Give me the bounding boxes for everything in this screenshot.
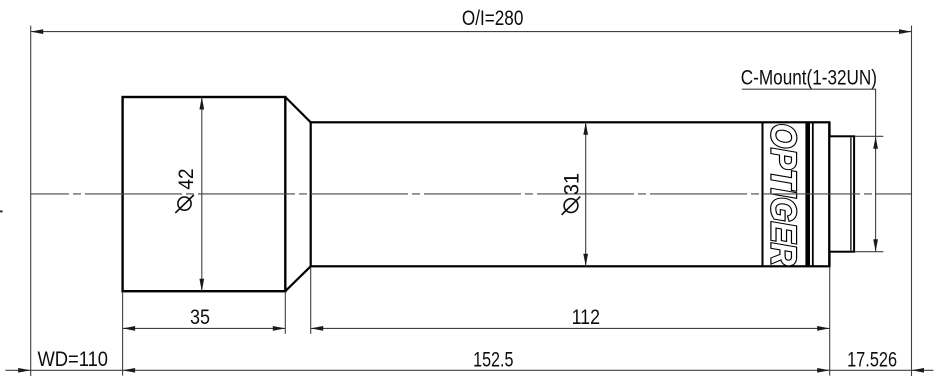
taper top: [285, 97, 310, 122]
dimension line O/I=280: [31, 31, 912, 33]
centerline axis: [31, 193, 912, 195]
ring groove line: [812, 122, 814, 266]
dimension line 35: [123, 327, 286, 329]
svg-text:42: 42: [175, 168, 198, 189]
svg-text:17.526: 17.526: [847, 348, 897, 371]
extension line front face: [122, 292, 124, 376]
extension line c-mount top: [855, 135, 883, 137]
ring left edge: [762, 122, 764, 266]
svg-text:C-Mount(1-32UN): C-Mount(1-32UN): [741, 67, 877, 90]
dimension line 112: [311, 327, 830, 329]
svg-text:112: 112: [572, 306, 600, 329]
main barrel phi31: [311, 122, 830, 266]
underline landing: [742, 88, 876, 90]
extension line left (object plane): [30, 26, 32, 376]
c-mount thread cylinder: [829, 136, 854, 251]
svg-text:35: 35: [190, 306, 210, 329]
dimension line phi31: [585, 122, 587, 266]
front cylinder phi42: [123, 97, 286, 291]
dimension line bottom row WD/152.5/17.526: [6, 369, 934, 371]
extension line barrel start: [310, 267, 312, 334]
label phi42: [175, 168, 198, 212]
label phi31: [561, 173, 584, 215]
extension line right (image plane): [911, 26, 913, 376]
svg-text:OPTIGER: OPTIGER: [763, 124, 802, 267]
dimension line phi42: [201, 97, 203, 291]
extension line c-mount bottom: [855, 251, 883, 253]
dimension leader C-Mount: [875, 89, 877, 252]
svg-text:WD=110: WD=110: [38, 348, 109, 371]
stray tick left edge: [0, 210, 3, 212]
ring black band: [805, 122, 810, 266]
flange face: [828, 122, 830, 266]
svg-text:152.5: 152.5: [473, 348, 513, 371]
svg-text:O/I=280: O/I=280: [462, 7, 524, 30]
taper bottom: [285, 266, 310, 291]
c-mount inner relief line: [850, 138, 852, 251]
svg-text:31: 31: [561, 173, 584, 195]
extension line front cylinder rear: [284, 292, 286, 334]
extension line flange face: [829, 267, 831, 376]
